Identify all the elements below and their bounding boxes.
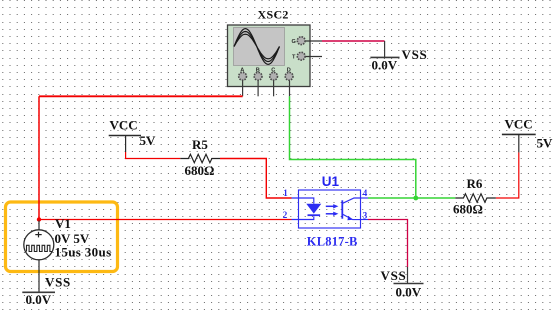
V1 square wave glyph (27, 245, 53, 251)
svg-text:5V: 5V (537, 136, 554, 151)
wire U1 pin 3 to VSS (crimson) (368, 220, 408, 268)
terminal A (239, 67, 247, 80)
svg-text:VSS: VSS (45, 274, 71, 289)
U1 pin 1 lead (292, 198, 314, 204)
U1 pin 4 lead (361, 197, 369, 199)
svg-text:680Ω: 680Ω (185, 163, 215, 178)
svg-text:0.0V: 0.0V (26, 292, 52, 307)
svg-text:XSC2: XSC2 (258, 8, 289, 22)
label XSC2 (258, 8, 289, 22)
terminal T (292, 52, 305, 60)
label KL817-B (307, 234, 358, 248)
wire scope B lead (stub) (257, 81, 259, 97)
svg-text:VSS: VSS (402, 47, 428, 62)
selection box around V1 (6, 202, 118, 272)
wire VCC left to R5 (126, 152, 181, 159)
opto-coupler U1 (292, 190, 369, 228)
resistor R6 (453, 176, 496, 217)
svg-text:2: 2 (283, 210, 288, 220)
svg-text:VSS: VSS (381, 268, 407, 283)
ground VSS top right (370, 41, 427, 73)
U1 pin 2 lead (292, 216, 314, 219)
svg-text:R5: R5 (192, 137, 208, 152)
svg-text:680Ω: 680Ω (453, 202, 483, 217)
wire V1 plus to U1 pin 2 (39, 219, 292, 221)
wire R5 to U1 pin 1 (220, 159, 292, 199)
svg-text:1: 1 (283, 188, 288, 198)
wire scope G to VSS (crimson) (322, 40, 385, 42)
wire V1 plus to scope A, horizontal (39, 95, 243, 97)
ground VSS bottom middle (381, 267, 424, 300)
svg-text:0.0V: 0.0V (396, 285, 422, 300)
svg-text:V1: V1 (55, 216, 71, 231)
wire scope A lead (242, 81, 244, 97)
power VCC left (109, 118, 156, 153)
oscilloscope XSC2 body (228, 25, 311, 87)
svg-text:4: 4 (363, 188, 368, 198)
label U1 (322, 174, 340, 189)
svg-text:D: D (287, 67, 291, 73)
svg-text:C: C (271, 67, 275, 73)
svg-text:R6: R6 (467, 176, 483, 191)
U1 phototransistor (341, 200, 343, 218)
label V1 values (55, 231, 112, 259)
wire scope D to junction (green) (290, 96, 416, 198)
svg-text:3: 3 (363, 210, 368, 220)
wire scope T lead (stub) (306, 56, 322, 58)
junction green net (413, 196, 418, 201)
label V1 (55, 216, 71, 231)
ground VSS bottom left (22, 274, 71, 307)
svg-text:U1: U1 (322, 174, 340, 189)
svg-text:G: G (292, 39, 296, 45)
U1 pin 3 lead (361, 219, 369, 221)
svg-text:VCC: VCC (110, 118, 138, 133)
svg-text:VCC: VCC (505, 117, 533, 132)
terminal D (285, 67, 293, 80)
oscilloscope screen waveform (234, 29, 280, 65)
junction at V1 plus (37, 217, 41, 221)
svg-text:T: T (292, 55, 296, 61)
wire scope G lead (306, 40, 322, 42)
terminal B (254, 67, 262, 80)
source V1 (24, 221, 54, 293)
svg-text:B: B (256, 67, 260, 73)
resistor R5 (180, 137, 220, 178)
U1 pin numbers (283, 188, 368, 221)
terminal C (270, 67, 278, 80)
svg-text:0.0V: 0.0V (372, 58, 398, 73)
wire scope C lead (stub) (273, 81, 275, 97)
V1 plus sign (38, 232, 40, 238)
svg-text:A: A (240, 67, 244, 73)
wire scope D lead (289, 81, 291, 97)
power VCC right (502, 117, 553, 153)
U1 LED (306, 204, 321, 214)
svg-text:15us 30us: 15us 30us (55, 244, 112, 259)
svg-text:KL817-B: KL817-B (307, 234, 358, 248)
wire U1 pin 4 to R6 (green) (368, 197, 455, 199)
U1 coupling arrows (326, 205, 334, 207)
wire R6 to VCC right (496, 152, 519, 198)
svg-text:5V: 5V (140, 133, 157, 148)
wire V1 plus to scope A, vertical (38, 96, 40, 219)
terminal G (292, 37, 306, 45)
